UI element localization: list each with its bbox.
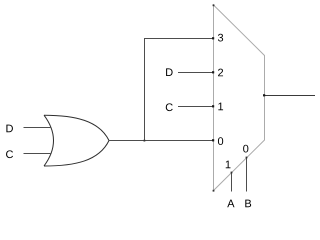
wire C input to or-gate — [24, 153, 52, 155]
junction branch node — [144, 140, 146, 142]
junction mux output — [263, 94, 265, 96]
label 3 (mux data input) — [218, 34, 223, 42]
junction mux input 1 — [212, 105, 214, 107]
junction mux top vertex — [213, 4, 215, 6]
wire select A to mux select 1 — [231, 173, 233, 192]
label 1 (mux select) — [226, 161, 231, 169]
label 0 (mux data input) — [218, 137, 223, 145]
label C (or-gate input) — [6, 150, 13, 158]
junction mux input 0 — [212, 139, 214, 141]
wire C to mux input 1 — [178, 106, 213, 108]
label 1 (mux data input) — [218, 103, 223, 111]
label A (select input) — [227, 200, 234, 208]
wire vertical branch from node to mux input 3 — [144, 38, 146, 141]
wire D to mux input 2 — [178, 72, 213, 74]
junction select 1 on slant — [231, 172, 233, 174]
label C (mux input 1 source) — [166, 103, 173, 111]
junction mux bottom-left vertex — [213, 190, 215, 192]
multiplexer U1 (4:1 mux trapezoid) — [214, 5, 265, 191]
label 2 (mux data input) — [218, 69, 223, 77]
label B (select input) — [245, 200, 251, 208]
or-gate G1 — [44, 115, 109, 166]
junction mux input 2 — [212, 71, 214, 73]
wire or-gate output to mux input 0 — [109, 140, 213, 142]
junction select 0 on slant — [246, 157, 248, 159]
wire D input to or-gate — [24, 127, 52, 129]
wire mux output — [264, 95, 315, 97]
label D (or-gate input) — [6, 125, 13, 133]
label D (mux input 2 source) — [166, 68, 173, 76]
wire select B to mux select 0 — [246, 158, 248, 192]
junction mux input 3 — [212, 37, 214, 39]
wire horizontal to mux input 3 — [144, 38, 213, 40]
label 0 (mux select) — [243, 145, 248, 153]
